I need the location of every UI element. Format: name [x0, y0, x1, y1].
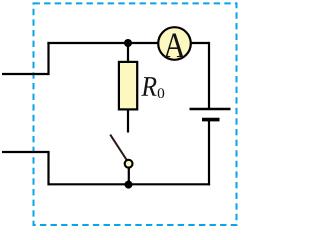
wire: top-left terminal lead — [2, 73, 49, 75]
wire: bottom-left terminal lead — [2, 151, 50, 153]
ammeter U1 — [158, 27, 191, 60]
dashed boundary box (black-box outline) — [34, 3, 237, 225]
wire: battery to bottom wire — [208, 120, 210, 186]
node: top junction dot — [124, 39, 132, 47]
wire: junction to resistor top — [127, 43, 129, 63]
wire: bottom-left vertical riser — [47, 152, 49, 185]
wire: top-left vertical riser — [47, 42, 49, 75]
battery B1 — [190, 109, 231, 120]
wire: right vertical down to battery — [208, 42, 210, 109]
resistor R0 — [119, 62, 137, 110]
wire: resistor bottom to switch — [127, 110, 129, 133]
wire: top horizontal run to ammeter — [47, 42, 158, 44]
node: bottom junction dot — [125, 181, 133, 189]
wire: bottom horizontal run — [49, 183, 211, 185]
switch S (open) — [110, 135, 132, 168]
wire: switch to bottom junction — [128, 168, 130, 184]
wire: ammeter to right corner — [191, 42, 209, 44]
label R0 — [141, 77, 164, 98]
